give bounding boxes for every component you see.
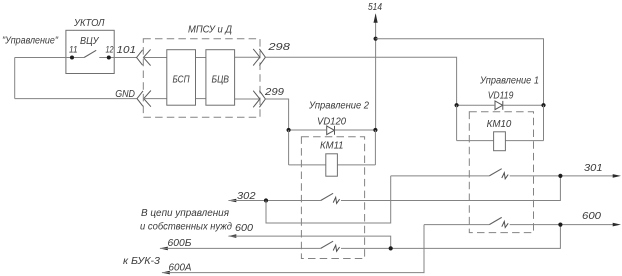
svg-text:УКТОЛ: УКТОЛ xyxy=(73,17,105,29)
svg-text:МПСУ и Д: МПСУ и Д xyxy=(188,24,233,36)
wire left vertical xyxy=(14,58,16,99)
node VD120 right xyxy=(373,128,377,132)
svg-text:к БУК-3: к БУК-3 xyxy=(123,256,160,267)
node 302 xyxy=(264,198,268,202)
wire 600А to 600 output line xyxy=(162,225,424,273)
connector pin 101 (chevron + arrow into МПСУ) xyxy=(137,49,151,65)
wire 298 to node under VD119 xyxy=(265,57,456,105)
svg-text:600Б: 600Б xyxy=(168,238,192,249)
contact КМ11.2 arc mark xyxy=(333,245,339,251)
contact КМ11.2 blade xyxy=(321,241,333,248)
connector pin GND (chevron + arrow into МПСУ) xyxy=(137,91,151,107)
wire 600Б left segment xyxy=(160,247,321,249)
wire БЦВ to 298 connector xyxy=(235,56,260,58)
contact КМ10.2 arc mark xyxy=(502,221,508,227)
wire VD119 right down to coil xyxy=(543,105,545,140)
svg-text:VD120: VD120 xyxy=(317,117,346,128)
svg-text:12: 12 xyxy=(106,45,115,56)
svg-text:299: 299 xyxy=(264,87,285,98)
connector pin 299 (arrow + chevron out of МПСУ) xyxy=(253,91,265,108)
switch box ВЦУ (УКТОЛ) xyxy=(66,30,114,73)
wire VD120 anode xyxy=(289,129,327,131)
wire VD119 left down to coil xyxy=(456,105,458,140)
block БСП xyxy=(167,50,196,105)
svg-text:514: 514 xyxy=(368,2,382,13)
dashed box КМ10 xyxy=(469,112,533,233)
wire 600 out xyxy=(510,224,615,226)
node 514 branch xyxy=(374,37,378,41)
wire БСП to БЦВ (top) xyxy=(196,57,206,59)
arrow 600А left xyxy=(162,271,170,275)
wire coil КМ11 right lead xyxy=(337,164,375,166)
arrow 600 right xyxy=(613,223,621,227)
svg-text:Управление 1: Управление 1 xyxy=(479,75,539,86)
node 600 right xyxy=(558,223,562,227)
wire VD120 right down to coil xyxy=(374,130,376,165)
node VD119 left xyxy=(455,103,459,107)
svg-text:600: 600 xyxy=(235,223,253,234)
svg-text:ВЦУ: ВЦУ xyxy=(80,35,100,47)
svg-text:и собственных нужд: и собственных нужд xyxy=(140,220,232,232)
wire МПСУ edge to БСП (top) xyxy=(143,57,167,59)
svg-text:Управление 2: Управление 2 xyxy=(308,100,369,111)
contact КМ10.2 blade xyxy=(489,217,501,224)
svg-text:301: 301 xyxy=(584,163,603,174)
arrow 600Б left xyxy=(160,247,168,251)
wire 299 to VD120 left node xyxy=(265,99,288,130)
svg-text:КМ10: КМ10 xyxy=(487,119,512,130)
node VD120 left xyxy=(287,128,291,132)
wire VD119 anode xyxy=(457,104,495,106)
dashed box МПСУ и Д xyxy=(143,39,260,117)
svg-text:БСП: БСП xyxy=(173,74,190,86)
arrow 514 up xyxy=(374,13,378,23)
wire 600Б right segment to 600 node xyxy=(341,225,560,249)
contact КМ10.1 blade xyxy=(489,169,501,176)
wire coil КМ11 left lead xyxy=(289,164,326,166)
wire 302 left segment xyxy=(229,200,321,202)
contact КМ10.1 arc mark xyxy=(502,173,508,179)
svg-text:"Управление": "Управление" xyxy=(2,36,58,47)
node pin 11 xyxy=(70,56,74,60)
diode VD119 xyxy=(495,101,503,110)
wire coil КМ10 right lead xyxy=(505,140,543,142)
svg-text:600А: 600А xyxy=(169,262,192,273)
wire 600 output through КМ10.2 left xyxy=(424,224,489,226)
svg-text:В цепи управления: В цепи управления xyxy=(141,208,230,219)
coil КМ11 xyxy=(326,154,338,176)
wire БСП to БЦВ (bottom) xyxy=(196,98,206,100)
arrow 302 left xyxy=(228,199,236,203)
node 600Б xyxy=(389,246,393,250)
wire 600 left to 600Б node xyxy=(229,236,391,248)
wire 302 right segment to 301 node xyxy=(341,176,560,201)
wire БЦВ to 299 connector xyxy=(235,98,260,100)
wire VD120 left down to coil xyxy=(288,130,290,165)
svg-text:КМ11: КМ11 xyxy=(320,141,344,152)
connector pin 298 (arrow + chevron out of МПСУ) xyxy=(253,49,265,66)
node VD119 right xyxy=(541,103,545,107)
contact КМ11.1 blade xyxy=(321,193,333,200)
wire pin11 to left xyxy=(15,57,84,59)
contact КМ11.1 arc mark xyxy=(333,197,339,203)
node 301 xyxy=(558,174,562,178)
wire coil КМ10 left lead xyxy=(457,140,494,142)
wire 301 through КМ10.1 left xyxy=(391,175,490,177)
svg-text:GND: GND xyxy=(115,89,135,100)
svg-text:VD119: VD119 xyxy=(488,90,514,101)
switch ВЦУ blade xyxy=(84,50,96,57)
svg-text:БЦВ: БЦВ xyxy=(212,74,230,86)
arrow 301 right xyxy=(613,174,621,178)
svg-text:298: 298 xyxy=(267,42,290,53)
dashed box КМ11 xyxy=(301,137,364,259)
svg-text:101: 101 xyxy=(117,45,137,56)
wire GND return xyxy=(15,98,137,100)
block БЦВ xyxy=(206,50,235,105)
wire VD120 cathode xyxy=(335,129,376,131)
coil КМ10 xyxy=(494,132,506,151)
node pin 12 xyxy=(107,56,111,60)
wire VD119 cathode xyxy=(503,104,544,106)
arrow 600 left xyxy=(228,234,236,238)
wire 514 branch to КМ10 right xyxy=(376,39,544,106)
svg-text:600: 600 xyxy=(582,211,601,222)
svg-text:11: 11 xyxy=(69,45,78,56)
wire 301 out xyxy=(510,175,615,177)
wire 302 node down and across xyxy=(266,176,391,223)
diode VD120 xyxy=(327,126,335,135)
wire pin12 to 101 connector xyxy=(99,57,136,59)
wire net 514 vertical xyxy=(375,15,377,131)
wire МПСУ edge to БСП (bottom) xyxy=(143,98,167,100)
